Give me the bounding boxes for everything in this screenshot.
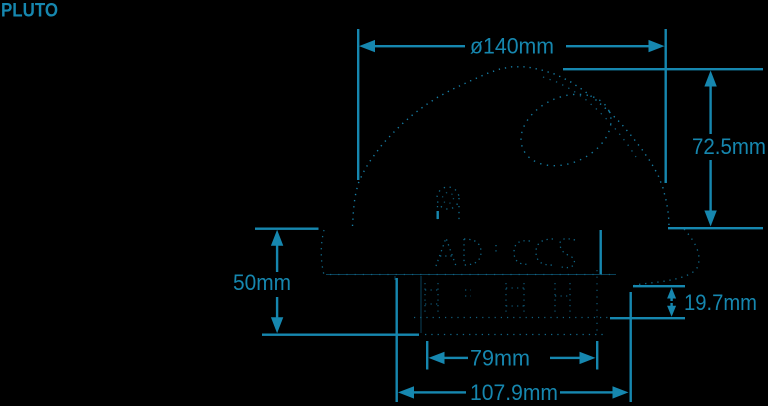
dimension 50mm : dimension line with arrows (271, 230, 283, 333)
svg-text:107.9mm: 107.9mm (470, 380, 558, 405)
dimension 19.7mm : dimension line with arrows (667, 288, 676, 317)
dome arc (glass dome outline, dotted) (353, 67, 670, 226)
svg-text:72.5mm: 72.5mm (692, 134, 766, 159)
lubber line (solid vertical) (600, 230, 602, 274)
svg-text:19.7mm: 19.7mm (684, 290, 757, 315)
dimension 79mm : left tick (426, 341, 428, 370)
compass card glyphs in bezel band (dotted clusters) (436, 238, 575, 268)
dimension 50mm : text (233, 270, 291, 295)
dimension 50mm : top reference line (255, 228, 319, 230)
bezel bottom edge (faint line) (326, 274, 616, 276)
dimension ø140mm : dimension line with arrows (359, 40, 665, 52)
dimension 107.9mm : text (470, 380, 558, 405)
dome inner arc (dotted, right portion) (543, 77, 636, 157)
dimension ø140mm : text (470, 34, 554, 59)
dimension 107.9mm : right extension line (630, 292, 632, 402)
dimension 50mm : bottom reference line (262, 334, 419, 336)
base left edge (faint) (395, 276, 421, 333)
base bottom edge (dotted) (425, 334, 605, 336)
svg-text:79mm: 79mm (470, 346, 530, 371)
dimension 107.9mm : dimension line with arrows (398, 386, 629, 398)
dimension 19.7mm : top reference line (633, 285, 685, 287)
dimension ø140mm : right extension line (665, 29, 667, 183)
bezel right edge bump (dotted) (634, 229, 699, 285)
svg-text:50mm: 50mm (233, 270, 291, 295)
dimension 79mm : right tick (596, 341, 598, 370)
knob solid tick (437, 211, 439, 219)
dimension 72.5mm : bottom reference line (668, 227, 763, 229)
svg-text:ø140mm: ø140mm (470, 34, 554, 59)
base right edge (dotted) (596, 270, 598, 333)
dimension 72.5mm : dimension line with arrows (704, 71, 716, 227)
gimbal knob (dotted circle with stem) (437, 187, 459, 223)
dimension 72.5mm : top reference line (563, 68, 763, 70)
dimension 107.9mm : left extension line (396, 278, 398, 402)
base mid line (dotted) (414, 317, 608, 319)
dimension 19.7mm : bottom reference line (610, 317, 685, 319)
svg-text:PLUTO: PLUTO (1, 1, 58, 22)
dimension ø140mm : left extension line (357, 29, 359, 180)
dimension 79mm : text (470, 346, 530, 371)
dimension 72.5mm : text (692, 134, 766, 159)
label PLUTO (1, 1, 58, 22)
dimension 19.7mm : text (684, 290, 757, 315)
bezel left edge bump (dotted) (321, 230, 324, 275)
base detail screws (dotted clusters) (425, 283, 570, 312)
dome highlight ellipse (dotted) (510, 81, 623, 180)
dimension 79mm : dimension line with arrows (429, 352, 596, 364)
